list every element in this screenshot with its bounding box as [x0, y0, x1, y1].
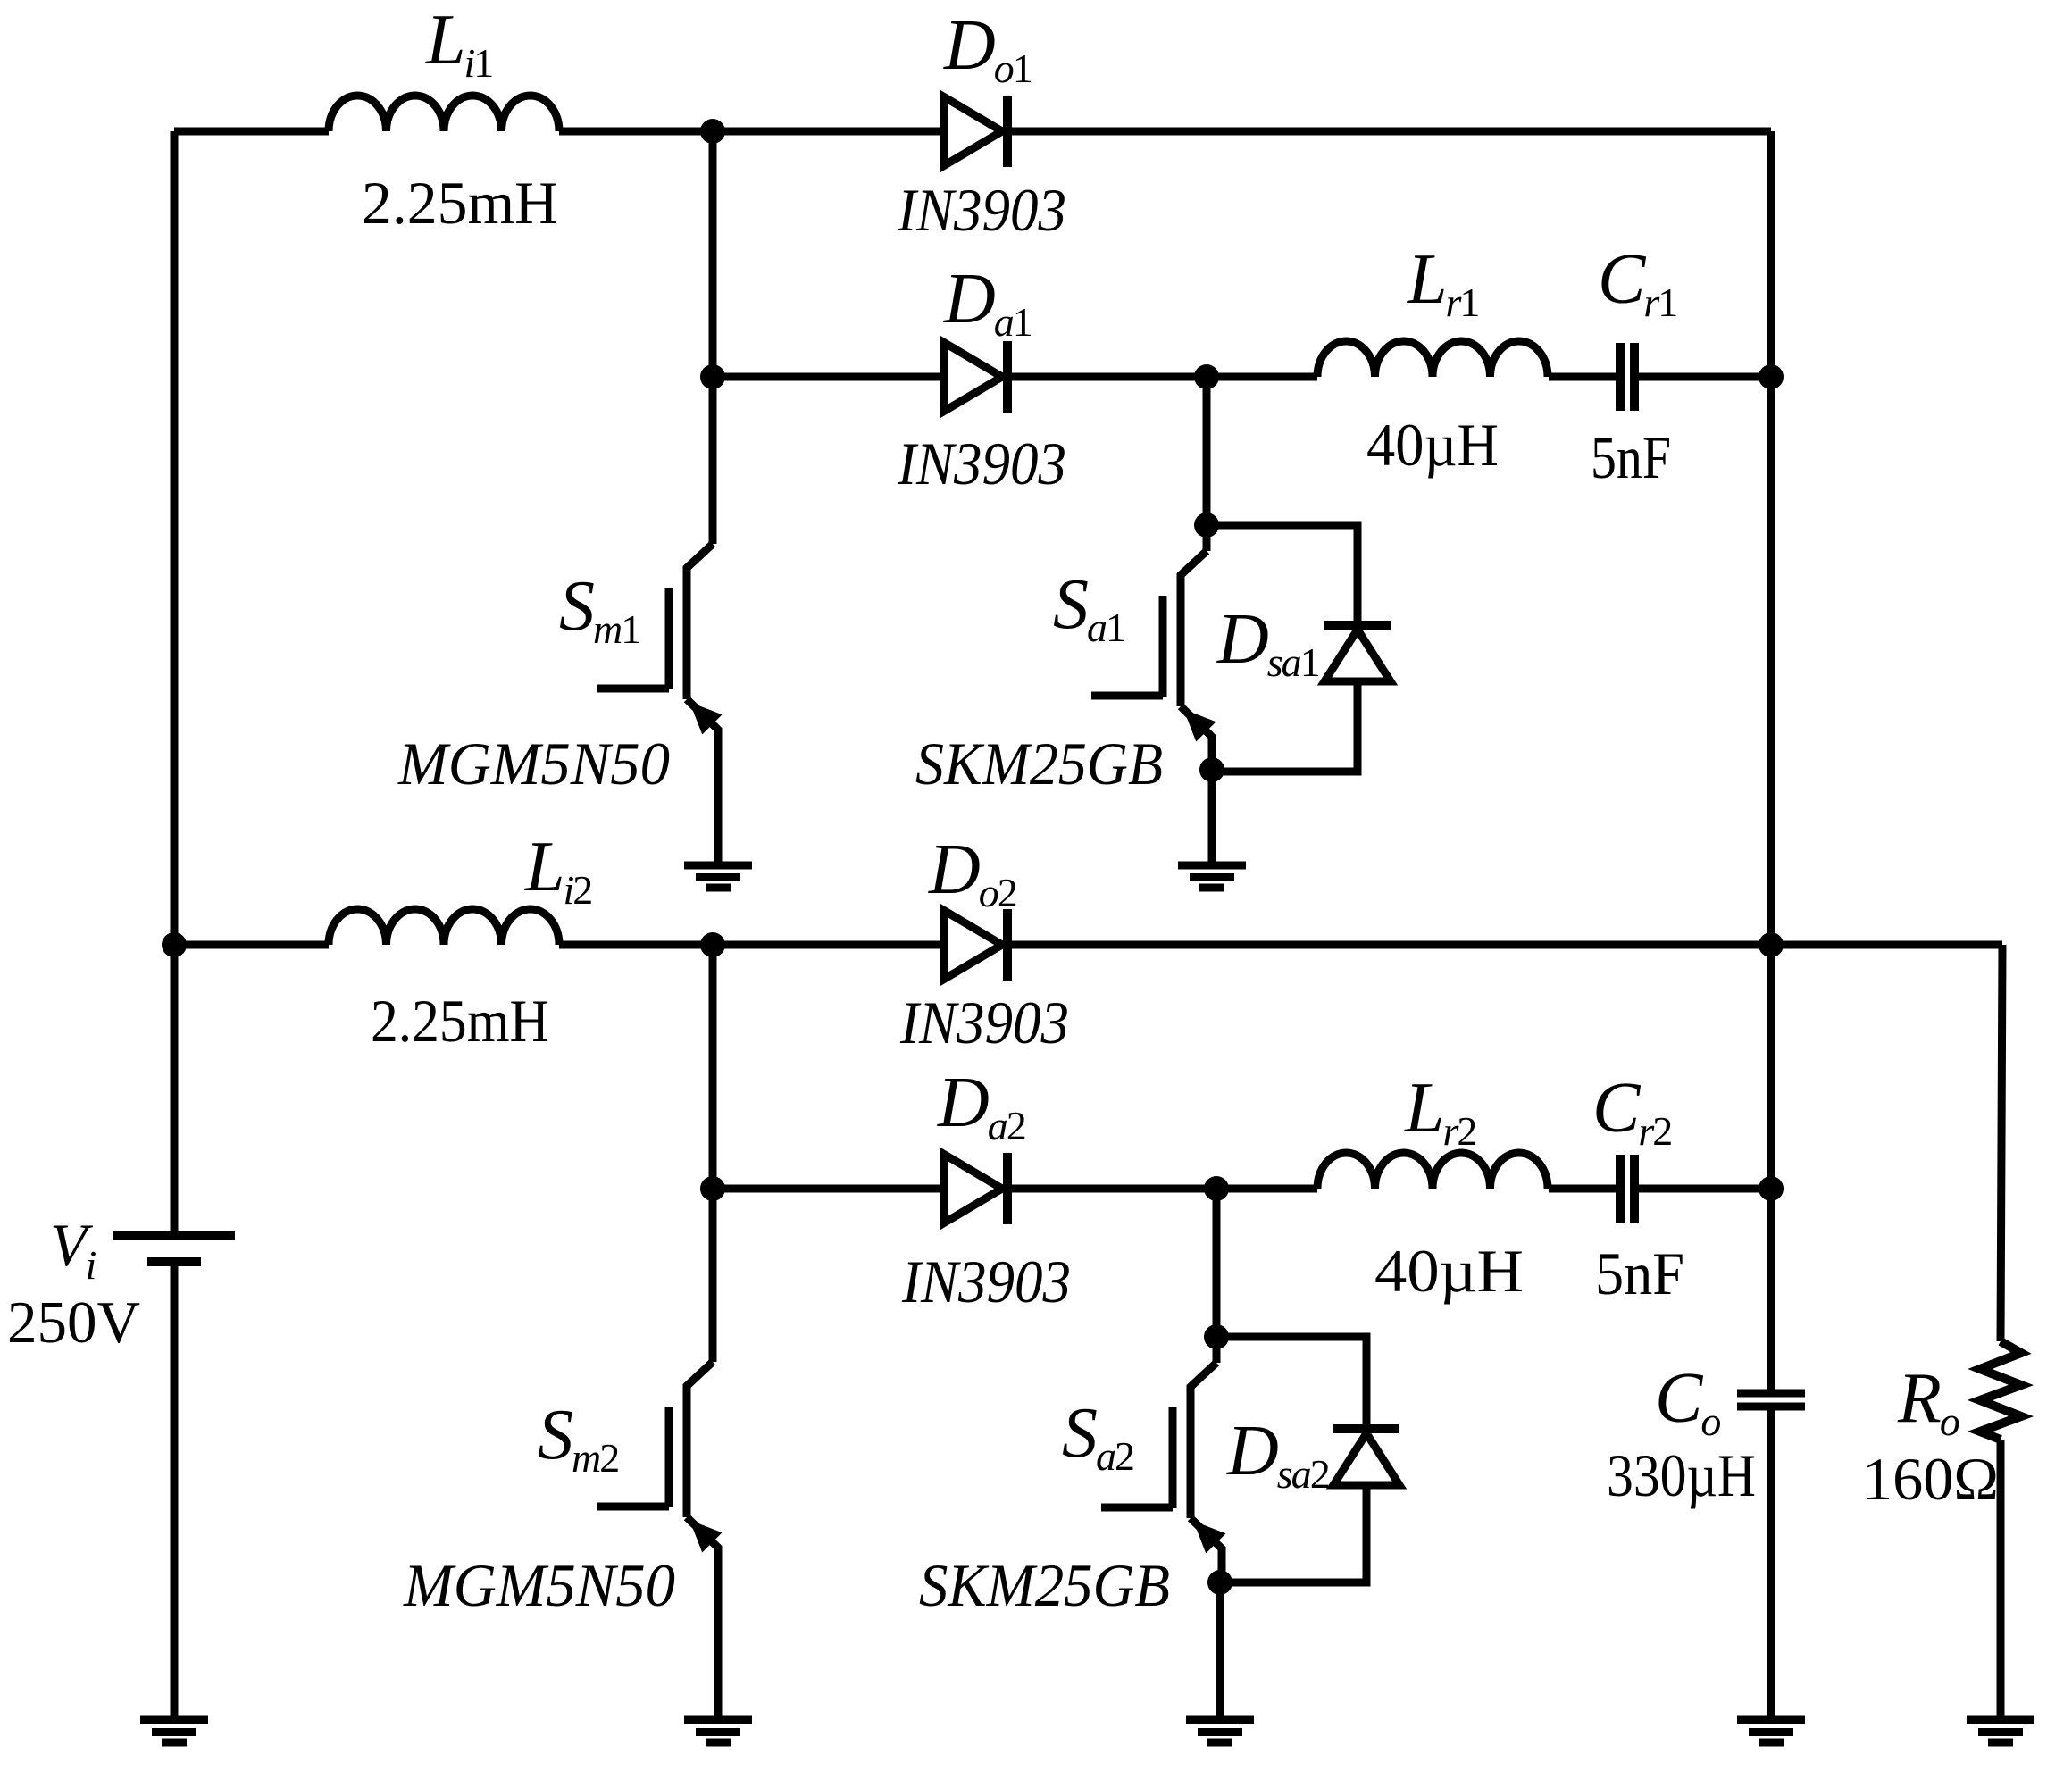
svg-text:5nF: 5nF: [1591, 423, 1671, 491]
svg-text:SKM25GB: SKM25GB: [915, 730, 1163, 797]
svg-text:5nF: 5nF: [1595, 1240, 1684, 1307]
svg-text:MGM5N50: MGM5N50: [397, 730, 670, 797]
svg-text:40µH: 40µH: [1374, 1237, 1524, 1305]
svg-text:160Ω: 160Ω: [1862, 1445, 1999, 1513]
svg-text:40µH: 40µH: [1366, 411, 1499, 479]
svg-text:250V: 250V: [7, 1290, 140, 1356]
svg-text:MGM5N50: MGM5N50: [403, 1551, 675, 1619]
svg-text:330µH: 330µH: [1607, 1441, 1756, 1509]
svg-text:SKM25GB: SKM25GB: [919, 1551, 1170, 1619]
svg-text:2.25mH: 2.25mH: [371, 987, 549, 1055]
svg-text:2.25mH: 2.25mH: [362, 169, 558, 237]
svg-text:IN3903: IN3903: [899, 989, 1069, 1056]
svg-text:IN3903: IN3903: [897, 176, 1066, 244]
svg-text:IN3903: IN3903: [901, 1248, 1071, 1315]
svg-text:IN3903: IN3903: [897, 430, 1066, 497]
